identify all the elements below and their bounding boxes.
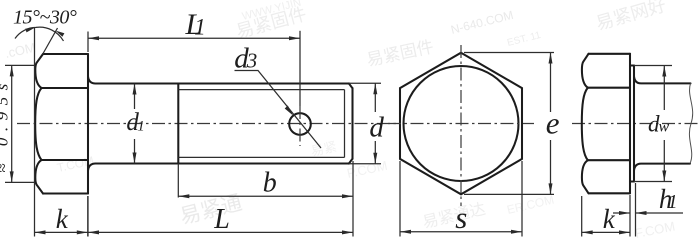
- view3 k arrow left: [582, 230, 593, 234]
- L arrow left: [88, 230, 99, 234]
- head bearing face: [87, 54, 89, 194]
- view3 shank top edge with fillet: [634, 77, 691, 84]
- svg-text:ER.COM: ER.COM: [506, 192, 556, 216]
- L1 arrow right: [289, 36, 300, 40]
- h1 arrow left pointing right: [619, 211, 630, 215]
- b extension (thread boundary extended): [177, 164, 179, 198]
- s arrow right: [511, 230, 522, 234]
- L1 arrow left: [88, 36, 99, 40]
- view3 centerline: [572, 123, 700, 125]
- L1 dimension line: [88, 37, 300, 39]
- head top edge: [43, 53, 88, 55]
- L arrow right: [342, 230, 353, 234]
- dw extension bottom: [634, 181, 672, 183]
- s extension right: [521, 161, 523, 237]
- svg-text:≈ 0.95s: ≈ 0.95s: [0, 77, 12, 172]
- d3 leader line: [235, 71, 322, 149]
- hexagon vertical centerline: [460, 45, 462, 206]
- hole d3 circle: [289, 113, 311, 135]
- dw dimension line: [663, 66, 665, 182]
- view3 head bottom edge: [589, 192, 631, 194]
- d extension top: [349, 82, 381, 84]
- svg-text:易紧固件: 易紧固件: [365, 37, 435, 70]
- head chamfer arc bottom face: [35, 160, 43, 194]
- thread minor diameter line top: [178, 89, 344, 91]
- head chamfer arc middle face: [35, 88, 41, 160]
- thread runout boundary: [177, 84, 179, 164]
- k arrow left: [35, 230, 46, 234]
- b arrow right: [342, 194, 353, 198]
- end chamfer diagonal top: [349, 84, 353, 89]
- svg-text:L: L: [213, 204, 230, 235]
- chamfer angle dimension arc: [15, 27, 64, 41]
- view3 k arrow right: [619, 230, 630, 234]
- svg-text:15°~30°: 15°~30°: [13, 7, 77, 29]
- svg-text:易紧: 易紧: [310, 139, 339, 159]
- h1 dimension line left part with arrow: [613, 212, 630, 214]
- head face division line lower: [42, 159, 88, 161]
- washer face top edge: [630, 64, 634, 66]
- end chamfer diagonal bottom: [349, 159, 353, 164]
- end face: [351, 88, 353, 159]
- s dimension line: [400, 231, 522, 233]
- dw extension top: [634, 65, 672, 67]
- angle arc arrowhead left: [25, 28, 34, 33]
- view3 head top edge: [589, 53, 631, 55]
- washer face right edge: [633, 66, 635, 182]
- head face division line upper: [42, 87, 88, 89]
- h1 left extension (bearing face below head): [629, 195, 631, 237]
- svg-text:d: d: [369, 112, 384, 144]
- svg-text:1: 1: [668, 191, 678, 213]
- d1 dimension line: [134, 84, 136, 164]
- svg-text:s: s: [455, 200, 467, 235]
- svg-text:w: w: [659, 119, 670, 136]
- e dimension line: [550, 53, 552, 195]
- e arrow down: [549, 183, 553, 194]
- 0.95s arrow up: [10, 65, 14, 76]
- d extension bottom: [349, 163, 381, 165]
- shank bottom edge with under-head fillet: [88, 164, 349, 171]
- h1 arrow right pointing left: [636, 211, 647, 215]
- hole vertical centerline: [299, 106, 301, 146]
- e extension bottom: [464, 193, 554, 195]
- svg-text:3: 3: [246, 49, 258, 73]
- svg-text:P.COM: P.COM: [346, 158, 389, 181]
- view3 shank bottom edge with fillet: [634, 164, 690, 171]
- thread minor diameter line bottom: [178, 156, 344, 158]
- k dimension line: [35, 231, 88, 233]
- dw arrow up: [662, 66, 666, 77]
- b dimension line: [178, 195, 353, 197]
- svg-text:k: k: [603, 204, 616, 234]
- view3 division line lower: [588, 159, 631, 161]
- svg-text:易紧网好: 易紧网好: [594, 0, 669, 34]
- view3 chamfer arc top face: [582, 54, 589, 88]
- 0.95s dimension line: [11, 65, 13, 182]
- 0.95s arrow down: [10, 171, 14, 182]
- h1 dimension line right part: [636, 212, 684, 214]
- view3 chamfer arc middle face: [582, 88, 588, 161]
- svg-text:易紧通达: 易紧通达: [421, 200, 487, 232]
- d3 leader arrowhead: [285, 106, 294, 116]
- b arrow left: [178, 194, 189, 198]
- svg-text:F.COM: F.COM: [634, 219, 677, 241]
- h1 right extension: [635, 183, 637, 237]
- b / L right extension: [352, 161, 354, 237]
- d1 arrow down: [133, 153, 137, 164]
- L1 extension line right to hole: [299, 31, 301, 106]
- view3 bearing face: [629, 54, 631, 194]
- 0.95s extension bottom: [5, 181, 34, 183]
- chamfer circle: [404, 66, 519, 181]
- angle arc arrowhead right: [56, 31, 65, 37]
- centerline bolt axis: [17, 123, 396, 125]
- k extension right (under bearing face): [87, 196, 89, 237]
- svg-text:e: e: [546, 105, 560, 140]
- s extension left: [399, 161, 401, 237]
- d arrow down: [373, 153, 377, 164]
- svg-text:EST. 11: EST. 11: [506, 30, 542, 49]
- view3 k dimension line: [582, 231, 630, 233]
- L dimension line: [88, 231, 353, 233]
- shank top edge with under-head fillet: [88, 77, 349, 84]
- break wavy line: [689, 83, 692, 163]
- d1 arrow up: [133, 84, 137, 95]
- svg-text:k: k: [56, 204, 69, 234]
- svg-text:1: 1: [194, 15, 206, 40]
- dw arrow down: [662, 171, 666, 182]
- hexagon horizontal centerline: [388, 123, 534, 125]
- e extension top: [464, 52, 554, 54]
- chamfer angle leader diagonal: [43, 28, 58, 55]
- thread chamfer start line: [344, 90, 346, 158]
- head bottom edge: [43, 192, 88, 194]
- k arrow right: [77, 230, 88, 234]
- svg-text:T.COM: T.COM: [56, 153, 95, 174]
- head chamfer arc top face: [35, 54, 43, 88]
- d arrow up: [373, 83, 377, 94]
- 0.95s extension top: [5, 64, 34, 66]
- hexagon outline: [400, 53, 522, 195]
- e arrow up: [549, 53, 553, 64]
- view3 division line upper: [588, 87, 631, 89]
- s arrow left: [400, 230, 411, 234]
- washer face bottom edge: [630, 180, 634, 182]
- view3 k left extension: [581, 196, 583, 237]
- svg-text:b: b: [263, 168, 277, 199]
- view3 chamfer arc bottom face: [582, 160, 589, 193]
- L1 extension line left: [87, 32, 89, 53]
- d dimension line: [374, 83, 376, 163]
- k extension line left (long, also for angle): [34, 28, 36, 237]
- L left extension: [87, 196, 89, 237]
- svg-text:N-640.COM: N-640.COM: [449, 8, 515, 37]
- svg-text:.cOM: .cOM: [4, 40, 38, 61]
- svg-text:1: 1: [137, 119, 145, 135]
